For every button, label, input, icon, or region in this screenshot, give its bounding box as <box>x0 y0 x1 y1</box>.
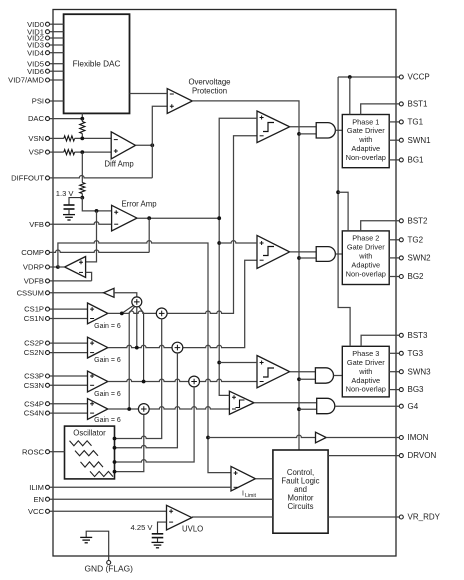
summing node (total current summer) <box>132 297 142 307</box>
wire: UVLO output to control logic <box>192 516 273 518</box>
wire: VCCP drop into Phase 2 driver <box>338 192 348 231</box>
svg-text:Phase 1: Phase 1 <box>352 117 379 126</box>
node: ramp 2 output <box>113 446 117 450</box>
svg-text:ILIM: ILIM <box>29 483 44 492</box>
svg-text:ROSC: ROSC <box>22 447 44 456</box>
pin BG2 <box>399 272 424 281</box>
op-amp U2 Overvoltage Protection <box>167 77 230 113</box>
svg-text:CS2P: CS2P <box>24 339 44 348</box>
comparator PWM4 (with hysteresis) <box>229 391 254 414</box>
svg-text:CS3N: CS3N <box>24 381 44 390</box>
svg-text:SWN2: SWN2 <box>408 254 432 263</box>
wire: AND1 output to Phase 1 driver <box>335 129 342 131</box>
wire: ramp 2 to summer S2 <box>115 353 178 448</box>
op-amp CS2 current sense amp <box>88 337 121 364</box>
wire: CS2 signal line to PWM2 comparator <box>108 260 257 347</box>
svg-text:VCCP: VCCP <box>408 73 430 82</box>
svg-text:BST1: BST1 <box>408 100 429 109</box>
pin CSSUM <box>17 288 104 297</box>
pin VID4 <box>27 48 63 57</box>
op-amp current limit comparator <box>231 466 257 499</box>
pin BST1 <box>399 100 428 109</box>
pin CS3P <box>24 372 87 381</box>
pin VCCP <box>338 73 430 82</box>
svg-text:DRVON: DRVON <box>408 451 437 460</box>
wire: PWM4 output to AND4 <box>254 402 317 404</box>
pin VID5 <box>27 59 63 68</box>
op-amp CS1 current sense amp <box>88 303 121 330</box>
svg-text:COMP: COMP <box>21 248 44 257</box>
wire: enable branch AND2 <box>299 257 316 259</box>
wire: COMP branch to PWM2 + input <box>219 241 257 243</box>
wire: CS1 tap diagonal into summer <box>122 306 133 314</box>
pin VR_RDY <box>399 513 440 522</box>
summer S3 (phase 3 ramp + current) <box>189 376 200 387</box>
svg-text:EN: EN <box>33 495 44 504</box>
svg-text:Gain = 6: Gain = 6 <box>94 323 121 330</box>
Phase 2 gate driver block <box>342 231 389 285</box>
pin BG1 <box>399 156 424 165</box>
wire: AND3 output to Phase 3 driver <box>334 375 343 377</box>
svg-text:Adaptive: Adaptive <box>351 260 380 269</box>
pin CS2N <box>24 348 88 357</box>
op-amp CS4 current sense amp <box>88 399 121 424</box>
svg-text:Oscillator: Oscillator <box>73 428 106 437</box>
svg-text:with: with <box>358 367 372 376</box>
wire: VDFB to VDRP buffer inverting input <box>86 272 92 281</box>
op-amp U3 Error Amp <box>112 200 158 231</box>
node: CS4 junction <box>127 407 131 411</box>
wire: CS3 signal line to PWM3 comparator <box>108 379 257 381</box>
oscillator ramp waveform 1 <box>70 441 92 446</box>
wire: CSSUM buffer input from current summer <box>114 293 137 297</box>
wire: DRVON from control logic <box>328 455 399 457</box>
svg-text:Protection: Protection <box>192 87 227 96</box>
svg-text:Flexible DAC: Flexible DAC <box>73 60 121 69</box>
op-amp CSSUM buffer <box>104 288 114 297</box>
oscillator block <box>65 426 115 479</box>
wire: SWN3 <box>389 371 399 373</box>
wire: COMP branch to PWM3 + input <box>219 362 257 364</box>
svg-text:CS1P: CS1P <box>24 305 44 314</box>
svg-text:SWN1: SWN1 <box>408 136 432 145</box>
pin TG2 <box>399 235 423 244</box>
pin VID1 <box>27 27 63 36</box>
node: CS3 junction <box>142 380 146 384</box>
svg-text:with: with <box>358 252 372 261</box>
svg-text:Non-overlap: Non-overlap <box>346 385 386 394</box>
svg-text:Gate Driver: Gate Driver <box>347 358 385 367</box>
wire: DAC box to Overvoltage Protection inverting input <box>130 93 168 95</box>
svg-text:VSN: VSN <box>28 134 44 143</box>
wire: TG3 <box>389 352 399 354</box>
svg-text:VID4: VID4 <box>27 48 44 57</box>
pin TG1 <box>399 118 423 127</box>
svg-text:PSI: PSI <box>32 97 44 106</box>
pin G4 <box>399 402 418 411</box>
svg-text:Gate Driver: Gate Driver <box>347 126 385 135</box>
wire: PWM1 output to AND1 <box>290 126 317 128</box>
svg-text:Overvoltage: Overvoltage <box>188 77 230 86</box>
wire: ramp 4 to summer S4 <box>115 414 144 471</box>
wire: BG1 <box>389 159 399 161</box>
ground (GND FLAG) <box>80 531 109 560</box>
wire: VCCP drop into Phase 1 driver <box>349 77 351 115</box>
wire: VR_RDY from control logic <box>328 516 399 518</box>
op-amp CS3 current sense amp <box>88 371 121 398</box>
summer S2 (phase 2 ramp + current) <box>172 342 183 353</box>
resistor R4 (VSP node to 1.3V node) <box>80 152 85 198</box>
pin CS2P <box>24 339 87 348</box>
node: CS1 junction <box>120 312 124 316</box>
wire: BST1 into Phase 1 driver <box>361 104 400 115</box>
node: VSN junction <box>80 137 84 141</box>
wire: IMON buffer output <box>326 437 399 439</box>
svg-text:with: with <box>358 135 372 144</box>
pin VDRP <box>23 263 58 272</box>
node: Error Amp output junction <box>147 216 151 220</box>
pin EN <box>33 495 272 504</box>
wire: ramp 3 to summer S3 <box>115 387 195 462</box>
svg-text:CSSUM: CSSUM <box>17 288 44 297</box>
comparator PWM3 (with hysteresis) <box>257 356 290 388</box>
wire: VSP to Diff Amp non-inverting input <box>75 151 112 153</box>
wire: ramp 1 to summer S1 <box>115 319 162 439</box>
wire: Diff Amp output <box>136 144 153 146</box>
pin VSN <box>28 134 63 143</box>
Phase 3 gate driver block <box>342 346 389 397</box>
node: DAC <box>80 117 84 121</box>
wire: summer fan to CS3 tap <box>139 307 144 382</box>
svg-text:UVLO: UVLO <box>182 525 203 534</box>
summer S4 (phase 4 ramp + current) <box>138 404 149 415</box>
node: ramp 1 output <box>113 437 117 441</box>
AND gate G1 <box>316 123 335 138</box>
op-amp IMON buffer <box>316 432 327 443</box>
svg-text:BG1: BG1 <box>408 156 425 165</box>
pin CS3N <box>24 381 88 390</box>
svg-text:TG1: TG1 <box>408 118 424 127</box>
pin VCC <box>28 507 167 516</box>
pin DIFFOUT <box>11 174 152 183</box>
node: VCCP branch to Phase 2 <box>336 190 340 194</box>
pin PSI <box>32 97 64 106</box>
pin BST3 <box>399 331 428 340</box>
summer S1 (phase 1 ramp + current) <box>156 308 167 319</box>
node: ramp 3 output <box>113 460 117 464</box>
wire: SWN2 <box>389 257 399 259</box>
svg-text:CS2N: CS2N <box>24 348 44 357</box>
pin COMP <box>21 248 149 257</box>
pin TG3 <box>399 349 423 358</box>
svg-text:I: I <box>242 491 244 498</box>
wire: CS4 signal line to PWM4 comparator <box>108 407 230 409</box>
svg-text:Phase 3: Phase 3 <box>352 349 379 358</box>
svg-text:CS3P: CS3P <box>24 372 44 381</box>
node: COMP at Error Amp output <box>217 216 221 220</box>
svg-text:Adaptive: Adaptive <box>351 144 380 153</box>
oscillator ramp waveform 2 <box>75 451 98 456</box>
pin VSP <box>29 148 64 157</box>
oscillator ramp waveform 4 <box>90 471 113 476</box>
pin VID6 <box>27 67 63 76</box>
svg-text:VDFB: VDFB <box>24 277 44 286</box>
wire: enable branch AND1 <box>299 133 316 135</box>
svg-text:TG3: TG3 <box>408 349 424 358</box>
wire: 1.3V reference down to VDRP amp non-inverting input <box>86 211 97 262</box>
pin CS1P <box>24 305 87 314</box>
pin VID2 <box>27 34 63 43</box>
AND gate G3 <box>315 368 333 383</box>
pin VID0 <box>27 20 63 29</box>
svg-text:BST3: BST3 <box>408 331 429 340</box>
capacitor C2 (4.25V reference) <box>152 522 167 542</box>
ground (4.25V reference) <box>152 541 164 543</box>
svg-text:Gate Driver: Gate Driver <box>347 243 385 252</box>
pin GND (FLAG) <box>85 561 134 574</box>
svg-text:Gain = 6: Gain = 6 <box>94 391 121 398</box>
pin BST2 <box>399 216 428 225</box>
node: enable to AND2 <box>297 256 301 260</box>
wire: VDRP buffer output <box>58 266 65 268</box>
AND gate G4 <box>317 398 335 413</box>
svg-text:SWN3: SWN3 <box>408 367 432 376</box>
svg-text:Diff Amp: Diff Amp <box>104 160 134 169</box>
wire: BST2 into Phase 2 driver <box>361 221 400 231</box>
pin VFB <box>29 220 111 229</box>
svg-text:VDRP: VDRP <box>23 263 44 272</box>
wire: IMON line from VDRP net <box>208 435 316 437</box>
node: COMP branch to PWM2 <box>217 241 221 245</box>
wire: BST3 into Phase 3 driver <box>361 335 399 346</box>
resistor R3 (VSP series) <box>64 150 75 155</box>
svg-text:Limit: Limit <box>245 493 257 499</box>
wire: Overvoltage Protection output / enable rail <box>192 101 299 450</box>
pin CS1N <box>24 314 88 323</box>
node: CS2 junction <box>135 346 139 350</box>
wire: PWM3 output to AND3 <box>290 371 316 373</box>
pin SWN1 <box>399 136 431 145</box>
svg-text:BST2: BST2 <box>408 216 429 225</box>
svg-text:VR_RDY: VR_RDY <box>408 513 441 522</box>
wire: VDRP net riser and run to current-limit chain <box>58 241 231 473</box>
svg-text:4.25 V: 4.25 V <box>131 523 154 532</box>
node: 1.3V reference <box>80 196 84 200</box>
svg-text:Phase 2: Phase 2 <box>352 234 379 243</box>
wire: BG3 <box>389 389 399 391</box>
svg-text:DIFFOUT: DIFFOUT <box>11 174 44 183</box>
Flexible DAC block <box>64 14 130 113</box>
svg-text:CS4N: CS4N <box>24 409 44 418</box>
wire: Error Amp output <box>137 217 219 219</box>
node: VDRP <box>56 265 60 269</box>
control fault logic block <box>273 450 328 533</box>
wire: summer fan to CS4 tap <box>129 307 135 410</box>
node: ramp 4 output <box>113 470 117 474</box>
node: enable to AND1 <box>297 132 301 136</box>
wire: summer fan to CS2 tap <box>136 307 138 348</box>
svg-text:VSP: VSP <box>29 148 44 157</box>
svg-text:G4: G4 <box>408 402 419 411</box>
svg-text:Gain = 6: Gain = 6 <box>94 417 121 424</box>
svg-text:VID7/AMD: VID7/AMD <box>8 76 44 85</box>
pin SWN2 <box>399 254 431 263</box>
pin DAC <box>28 114 82 123</box>
node: IMON tap on VDRP net <box>206 436 210 440</box>
node: DIFFOUT junction <box>150 143 154 147</box>
wire: TG1 <box>389 121 399 123</box>
wire: VSN to Diff Amp inverting input <box>75 137 112 139</box>
node: enable to AND4 <box>297 407 301 411</box>
svg-text:DAC: DAC <box>28 114 45 123</box>
wire: CS1 signal line to PWM1 comparator <box>108 136 257 314</box>
capacitor C1 (1.3V bypass) <box>64 198 83 215</box>
comparator PWM1 (with hysteresis) <box>257 111 290 143</box>
pin IMON <box>399 433 428 442</box>
svg-text:Error Amp: Error Amp <box>121 200 157 209</box>
pin CS4P <box>24 399 87 408</box>
pin CS4N <box>24 409 88 418</box>
wire: PWM2 output to AND2 <box>290 251 317 253</box>
svg-text:TG2: TG2 <box>408 235 424 244</box>
resistor R2 (VSN series) <box>64 136 75 141</box>
svg-text:Circuits: Circuits <box>288 502 314 511</box>
svg-text:VCC: VCC <box>28 507 45 516</box>
svg-text:BG3: BG3 <box>408 385 425 394</box>
wire: enable branch AND4 <box>299 408 317 410</box>
resistor R1 (DAC to VSN node) <box>80 119 85 139</box>
svg-text:IMON: IMON <box>408 433 429 442</box>
wire: 1.3V node to Error Amp non-inverting input <box>82 198 111 211</box>
svg-text:1.3 V: 1.3 V <box>56 189 75 198</box>
AND gate G2 <box>316 247 335 262</box>
node: VSP junction <box>80 150 84 154</box>
wire: AND2 output to Phase 2 driver <box>335 253 342 255</box>
Phase 1 gate driver block <box>342 115 389 168</box>
node: VCCP branch to Phase 1 <box>348 75 352 79</box>
node: enable to AND3 <box>297 377 301 381</box>
svg-text:VFB: VFB <box>29 220 44 229</box>
svg-text:Adaptive: Adaptive <box>351 376 380 385</box>
op-amp Diff Amp <box>104 132 135 169</box>
pin DRVON <box>399 451 436 460</box>
wire: DIFFOUT riser to Overvoltage Protection non-inverting input <box>152 106 167 178</box>
wire: enable branch AND3 <box>299 378 315 380</box>
svg-text:CS1N: CS1N <box>24 314 44 323</box>
pin VDFB <box>24 277 92 286</box>
ground (1.3V cap) <box>63 214 75 216</box>
pin SWN3 <box>399 367 431 376</box>
svg-text:Non-overlap: Non-overlap <box>346 269 386 278</box>
comparator PWM2 (with hysteresis) <box>257 235 290 268</box>
svg-text:Non-overlap: Non-overlap <box>346 153 386 162</box>
wire: SWN1 <box>389 139 399 141</box>
pin BG3 <box>399 385 424 394</box>
svg-text:CS4P: CS4P <box>24 399 44 408</box>
svg-text:BG2: BG2 <box>408 272 425 281</box>
svg-text:VID6: VID6 <box>27 67 44 76</box>
pin VID7/AMD <box>8 76 63 85</box>
pin ILIM <box>29 483 231 492</box>
wire: TG2 <box>389 239 399 241</box>
wire: COMP signal vertical to PWM comparator + inputs <box>219 118 257 395</box>
op-amp VDRP buffer <box>65 257 86 278</box>
svg-text:GND (FLAG): GND (FLAG) <box>85 564 134 574</box>
wire: DAC box output drop <box>81 113 83 118</box>
svg-text:Gain = 6: Gain = 6 <box>94 357 121 364</box>
node: 1.3V branch junction <box>95 209 99 213</box>
wire: BG2 <box>389 276 399 278</box>
pin VID3 <box>27 41 63 50</box>
wire: Error Amp output down to COMP pin <box>148 218 150 252</box>
node: COMP branch to PWM3 <box>217 361 221 365</box>
wire: AND4 output to G4 pin <box>335 405 400 407</box>
wire: current limit output to control logic <box>255 478 273 480</box>
IC boundary outline <box>53 10 396 557</box>
wire: VCCP rail down left of drivers <box>338 77 350 346</box>
op-amp UVLO comparator <box>167 505 204 533</box>
pin ROSC <box>22 447 64 456</box>
oscillator ramp waveform 3 <box>81 462 104 467</box>
